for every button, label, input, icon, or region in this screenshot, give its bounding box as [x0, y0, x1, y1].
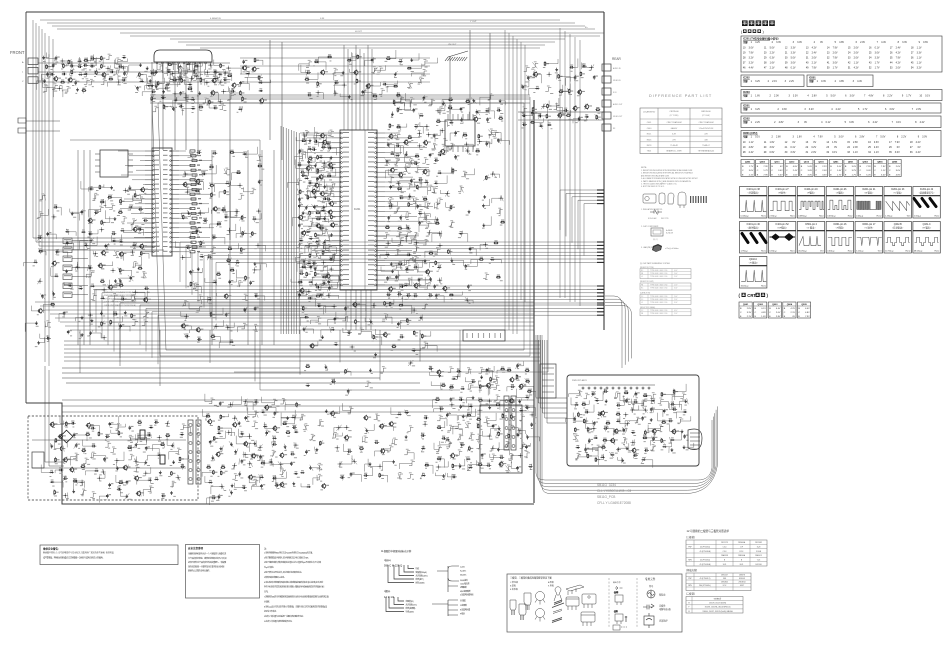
node junction	[414, 240, 419, 245]
svg-text:Y801: Y801	[647, 151, 651, 153]
svg-text:0V: 0V	[792, 141, 795, 144]
svg-text:NPN: NPN	[688, 560, 692, 562]
wire: center vertical bus 2	[508, 33, 510, 330]
pin 40 IC201 right	[375, 250, 377, 252]
capacitor C103	[52, 63, 57, 67]
wire: capacitor marking fan	[388, 565, 414, 583]
resistor R298	[525, 379, 530, 383]
wire	[388, 176, 394, 182]
node junction	[490, 446, 495, 451]
wire	[658, 425, 664, 431]
svg-text:IC201: IC201	[354, 208, 361, 211]
svg-text:2.2V: 2.2V	[822, 166, 827, 168]
wire	[114, 68, 120, 74]
wire: drop 5	[254, 330, 256, 381]
node junction	[477, 408, 482, 413]
svg-text:维修安全警告:: 维修安全警告:	[43, 547, 59, 551]
svg-text:3.0V: 3.0V	[797, 41, 802, 44]
diode D217	[576, 445, 580, 449]
svg-text:AUDIO OUT: AUDIO OUT	[613, 103, 622, 106]
resistor R103	[101, 56, 106, 61]
svg-text:IC201 (TV信号处理/扫描小信号): IC201 (TV信号处理/扫描小信号)	[743, 37, 779, 41]
wire	[407, 183, 413, 189]
resistor R209	[100, 199, 105, 203]
svg-text:3.3V: 3.3V	[674, 287, 678, 289]
resistor R108	[96, 70, 101, 75]
svg-text:B: B	[830, 166, 832, 168]
resistor R199	[355, 319, 360, 324]
wire: top bus line 10	[200, 47, 540, 49]
svg-text:49: 49	[806, 67, 809, 70]
svg-text:7.9V: 7.9V	[812, 67, 817, 70]
wire	[224, 168, 230, 174]
node junction	[408, 361, 413, 366]
capacitor C132	[242, 60, 247, 64]
wire	[332, 432, 338, 438]
capacitor C303	[272, 475, 277, 479]
resistor R151	[558, 74, 563, 79]
diode D172	[157, 453, 161, 457]
capacitor C209	[386, 276, 391, 280]
svg-text:Q403: Q403	[760, 161, 766, 164]
capacitor C290	[161, 493, 166, 497]
capacitor C107	[90, 63, 95, 67]
svg-text:6.未在本机市场范围的场效应和标注体系数采用器件的标出 (标: 6.未在本机市场范围的场效应和标注体系数采用器件的标出 (标注标准) 标志, 测…	[264, 580, 323, 584]
resistor R318	[392, 344, 397, 348]
transistor Q414	[440, 149, 448, 155]
wire	[426, 221, 432, 227]
resistor R212	[134, 193, 139, 198]
resistor R220	[113, 311, 118, 315]
capacitor C200	[389, 185, 394, 189]
ground	[81, 333, 84, 336]
svg-text:4.8V: 4.8V	[839, 80, 844, 83]
resistor R168	[307, 195, 312, 200]
svg-text:B: B	[860, 166, 862, 168]
transistor Q411	[353, 70, 361, 76]
wire	[308, 221, 314, 227]
wire: left of IC201 vertical bundle	[280, 126, 282, 334]
diode D167	[84, 243, 88, 247]
wire	[197, 72, 203, 78]
resistor R128	[240, 91, 245, 96]
capacitor C224	[397, 322, 402, 326]
capacitor C241	[119, 324, 124, 328]
pin 60 IC201 right	[375, 152, 377, 154]
svg-text:2.0V: 2.0V	[776, 312, 781, 314]
wire	[434, 202, 440, 208]
node junction	[102, 287, 107, 292]
svg-text:6: 6	[856, 41, 858, 44]
resistor R327	[616, 412, 621, 416]
wire	[532, 61, 538, 67]
wire	[203, 97, 209, 103]
svg-text:R605: R605	[647, 139, 652, 141]
svg-text:3.0V: 3.0V	[808, 175, 813, 177]
svg-text:F: F	[689, 607, 690, 609]
connector antenna input	[18, 118, 26, 133]
svg-text:引脚: 引脚	[743, 120, 748, 124]
resistor R316	[452, 464, 457, 469]
svg-text:VIDEO IN: VIDEO IN	[613, 80, 621, 82]
capacitor C119	[178, 76, 183, 80]
wire	[121, 216, 127, 222]
capacitor C169	[301, 173, 306, 177]
svg-text:E: E	[874, 175, 876, 177]
svg-text:电阻值 (12): 电阻值 (12)	[406, 599, 415, 603]
svg-text:28: 28	[743, 57, 746, 60]
transistor Q444	[413, 283, 421, 289]
waveform card IC201-pin 23	[884, 187, 911, 219]
transistor Q408	[251, 66, 259, 72]
svg-text:2.1V: 2.1V	[812, 62, 817, 65]
diode D174	[94, 468, 98, 472]
wire: lower bus 1	[35, 301, 534, 303]
wire: IC201 bottom feeds	[345, 290, 347, 330]
diode D212	[683, 409, 687, 413]
diode D147	[414, 124, 418, 128]
wire	[524, 65, 530, 71]
svg-text:FB: FB	[641, 273, 643, 275]
wire: loop route A	[152, 97, 530, 356]
capacitor C173	[323, 196, 328, 200]
wire	[304, 188, 310, 194]
wire: top bus line 6	[130, 35, 600, 37]
node junction	[106, 66, 111, 71]
svg-text:T-26: T-26	[757, 560, 760, 562]
pin 2 IC201 left	[341, 137, 343, 139]
wire	[297, 241, 303, 247]
wire	[116, 423, 122, 429]
svg-text:43: 43	[869, 62, 872, 65]
waveform card IC201-pin 42	[913, 187, 940, 219]
pin 8 IC302 left	[153, 184, 155, 186]
resistor R309	[511, 414, 516, 419]
diode D192	[300, 470, 304, 474]
capacitor C254	[249, 281, 254, 285]
node junction	[63, 493, 68, 498]
pin 34 IC302 right	[170, 198, 172, 200]
diode D202	[445, 437, 449, 441]
resistor R134	[386, 56, 391, 60]
node junction	[302, 133, 307, 138]
capacitor C288	[106, 494, 111, 498]
node frame pads	[597, 189, 604, 191]
svg-text:11: 11	[764, 46, 767, 49]
ground	[472, 396, 475, 399]
svg-text:Q904: Q904	[787, 303, 793, 306]
op-amp IC101	[154, 50, 212, 62]
pin 26 IC201 left	[341, 255, 343, 257]
resistor R208	[99, 185, 104, 190]
capacitor C140	[460, 107, 465, 111]
svg-text:(-)端: (-)端	[614, 609, 618, 613]
capacitor C313	[347, 449, 352, 453]
transistor Q420	[320, 133, 328, 139]
pin 44 IC302 right	[170, 150, 172, 152]
wire	[431, 143, 437, 149]
svg-text:36: 36	[911, 57, 914, 60]
svg-text:9: 9	[919, 41, 921, 44]
svg-text:12: 12	[785, 46, 788, 49]
capacitor C257	[244, 308, 249, 312]
svg-text:SB11G_3234: SB11G_3234	[597, 483, 616, 487]
svg-text:1: 1	[751, 121, 753, 124]
resistor R112	[168, 62, 173, 66]
pin 20 IC201 left	[341, 225, 343, 227]
resistor R118	[172, 77, 177, 81]
diode D105	[186, 62, 190, 66]
capacitor C153	[522, 85, 527, 89]
resistor R222	[101, 321, 106, 326]
wire	[423, 239, 429, 245]
diode D165	[65, 229, 69, 233]
wire	[384, 232, 390, 238]
svg-text:5: 5	[834, 136, 836, 139]
resistor R334	[603, 438, 608, 442]
ground	[330, 233, 333, 236]
wire	[44, 85, 50, 91]
wire	[38, 211, 44, 217]
svg-text:1.6V: 1.6V	[755, 95, 760, 98]
svg-text:0.65Vp-p: 0.65Vp-p	[827, 216, 836, 218]
svg-text:C: C	[889, 170, 891, 172]
resistor R339	[595, 457, 600, 462]
wire	[213, 71, 219, 77]
node junction	[438, 243, 443, 248]
svg-text:7: 7	[864, 95, 866, 98]
svg-text:条件 为标准信号发生器连接标准天线输入端输出场为暗画面测试信: 条件 为标准信号发生器连接标准天线输入端输出场为暗画面测试信号亮度最小(标	[264, 585, 324, 589]
pin 6 IC302 left	[153, 174, 155, 176]
capacitor C261	[54, 204, 59, 208]
svg-text:13: 13	[806, 141, 809, 144]
svg-text:C: C	[801, 170, 803, 172]
node junction	[417, 131, 422, 136]
ground	[497, 448, 500, 451]
svg-text:LOCATION NO: LOCATION NO	[643, 111, 656, 114]
node junction	[130, 250, 135, 255]
svg-text:Horiz: Horiz	[761, 250, 766, 253]
capacitor C235	[138, 227, 143, 231]
resistor R296	[490, 377, 495, 382]
svg-text:4.8V: 4.8V	[761, 312, 766, 314]
resistor R245	[190, 282, 195, 287]
ground	[342, 71, 345, 74]
pin 46 IC201 right	[375, 220, 377, 222]
node junction	[417, 143, 422, 148]
svg-text:13: 13	[806, 46, 809, 49]
node junction	[238, 183, 243, 188]
ground	[302, 211, 305, 214]
capacitor C321	[486, 368, 491, 372]
pin 49 IC201 right	[375, 206, 377, 208]
resistor R149	[475, 148, 480, 152]
pin 8 IC201 left	[341, 166, 343, 168]
transistor Q401	[101, 72, 109, 78]
wire	[573, 434, 579, 440]
svg-text:2.8V: 2.8V	[747, 308, 752, 310]
node junction	[625, 421, 630, 426]
capacitor C272	[91, 425, 96, 429]
diode D131	[306, 229, 310, 233]
svg-text:电阻(Ω): 电阻(Ω)	[384, 589, 391, 593]
resistor R132	[347, 58, 352, 62]
svg-text:Horiz: Horiz	[934, 250, 939, 253]
svg-text:Horiz: Horiz	[761, 215, 766, 218]
resistor R324	[673, 389, 678, 394]
transistor Q474	[232, 422, 240, 428]
CRT board outline	[567, 375, 699, 466]
resistor R127	[258, 75, 263, 80]
capacitor C149	[582, 63, 587, 67]
pin 54 IC201 right	[375, 181, 377, 183]
svg-text:48: 48	[785, 67, 788, 70]
CRT socket	[688, 429, 702, 450]
svg-text:3: 3	[792, 136, 794, 139]
pin 29 IC302 right	[170, 222, 172, 224]
diode D139	[424, 180, 428, 184]
diode D195	[459, 231, 463, 235]
ground	[72, 490, 75, 493]
svg-text:35: 35	[889, 151, 892, 154]
wire: drop 4	[209, 330, 211, 363]
diode D196	[490, 257, 494, 261]
capacitor C296	[265, 431, 270, 435]
svg-text:3.0V: 3.0V	[922, 136, 927, 139]
resistor R104	[46, 64, 51, 69]
svg-text:B: B	[771, 166, 773, 168]
node junction	[344, 425, 349, 430]
svg-text:IC203: IC203	[743, 91, 750, 94]
svg-text:2.0V: 2.0V	[854, 46, 859, 49]
node junction	[490, 172, 495, 177]
resistor R202	[413, 330, 418, 335]
wire	[164, 68, 170, 74]
diode D121	[449, 120, 453, 124]
svg-text:39: 39	[785, 62, 788, 65]
wire: center vertical bus 3	[512, 36, 514, 334]
resistor R274	[286, 430, 291, 434]
capacitor C281	[145, 446, 150, 450]
svg-text:11: 11	[764, 141, 767, 144]
svg-text:3.0V: 3.0V	[769, 146, 774, 149]
resistor R165	[317, 169, 322, 174]
resistor R189	[385, 225, 390, 229]
ground	[197, 267, 200, 270]
ground	[483, 195, 486, 198]
svg-text:B: B	[889, 166, 891, 168]
node junction	[184, 95, 189, 100]
resistor R303	[435, 397, 440, 401]
pin 1 IC201 left	[341, 132, 343, 134]
resistor R335	[643, 435, 648, 439]
pin 7 IC201 left	[341, 162, 343, 164]
svg-text:D/1GB: D/1GB	[756, 551, 762, 553]
ground	[42, 56, 45, 59]
svg-text:3.除了电解电容外, 所有电容的标注值 标注为 P 值,单位: 3.除了电解电容外, 所有电容的标注值 标注为 P 值,单位 μ F.不带单位.…	[264, 560, 321, 564]
svg-text:33: 33	[847, 151, 850, 154]
svg-text:29: 29	[764, 151, 767, 154]
capacitor C314	[340, 475, 345, 479]
diode D179	[291, 415, 295, 419]
wire	[545, 86, 551, 92]
ground	[114, 217, 117, 220]
resistor R159	[566, 113, 571, 117]
ground	[187, 211, 190, 214]
svg-text:IC201-pin 42: IC201-pin 42	[920, 189, 934, 191]
diode D101	[77, 59, 81, 63]
ground	[671, 448, 674, 451]
wire: misc verticals	[151, 62, 153, 150]
symbol TO92 package	[510, 592, 545, 622]
resistor R166	[327, 173, 332, 177]
svg-text:1: 1	[751, 80, 753, 83]
resistor R329	[606, 421, 611, 425]
capacitor C232	[143, 218, 148, 222]
svg-text:0.3V: 0.3V	[782, 108, 787, 111]
svg-text:2.2V: 2.2V	[789, 80, 794, 83]
wire: resistor marking fan	[386, 597, 404, 612]
svg-text:34: 34	[869, 57, 872, 60]
resistor R234	[216, 221, 221, 225]
svg-text:Horiz: Horiz	[848, 250, 853, 253]
wire	[413, 246, 419, 252]
resistor R150	[544, 61, 549, 66]
svg-text:54: 54	[911, 67, 914, 70]
waveform card Q431-C	[913, 222, 940, 254]
svg-text:): )	[767, 293, 769, 298]
svg-text:Q861: Q861	[848, 162, 854, 164]
capacitor C218	[428, 293, 433, 297]
pin 62 IC201 right	[375, 142, 377, 144]
capacitor C203	[416, 204, 421, 208]
wire: resistor type bracket	[432, 600, 458, 616]
svg-text:B: B	[769, 308, 771, 310]
node junction	[333, 91, 338, 96]
node junction	[235, 209, 240, 214]
svg-text:<起始重显信号>: <起始重显信号>	[919, 191, 935, 195]
node junction	[232, 416, 237, 421]
svg-text:C3-3: C3-3	[723, 547, 727, 549]
capacitor C279	[75, 443, 80, 447]
node junction	[214, 324, 219, 329]
wire	[322, 164, 328, 170]
svg-text:150Vp-p: 150Vp-p	[741, 286, 750, 288]
pin 16 IC201 left	[341, 206, 343, 208]
diode D143	[437, 265, 441, 269]
svg-text:3.0V: 3.0V	[833, 62, 838, 65]
svg-text:8: 8	[883, 95, 885, 98]
svg-text:0.45p-p: 0.45p-p	[856, 216, 864, 218]
capacitor C283	[59, 467, 64, 471]
pin 33 IC302 right	[170, 203, 172, 205]
wire	[238, 193, 244, 199]
wire	[326, 234, 332, 240]
svg-text:33: 33	[848, 57, 851, 60]
svg-text:16: 16	[868, 141, 871, 144]
capacitor C358	[641, 416, 646, 420]
svg-text:0V: 0V	[804, 121, 807, 124]
svg-text:B: B	[845, 166, 847, 168]
svg-text:2.除了覆铜膜设计电阻外, 其余电阻器注法为标注值 标注 R: 2.除了覆铜膜设计电阻外, 其余电阻器注法为标注值 标注 RW。	[264, 555, 310, 559]
capacitor C333	[442, 436, 447, 440]
wire: front-end rows	[38, 62, 230, 64]
svg-text:4. PARTS MARKED WITH [ ] ARE: 4. PARTS MARKED WITH [ ] ARE RELATED WIT…	[641, 180, 692, 183]
wire: top bus line 3	[52, 25, 585, 27]
capacitor C128	[161, 95, 166, 99]
capacitor C360	[604, 426, 609, 430]
transistor Q429	[327, 209, 335, 215]
